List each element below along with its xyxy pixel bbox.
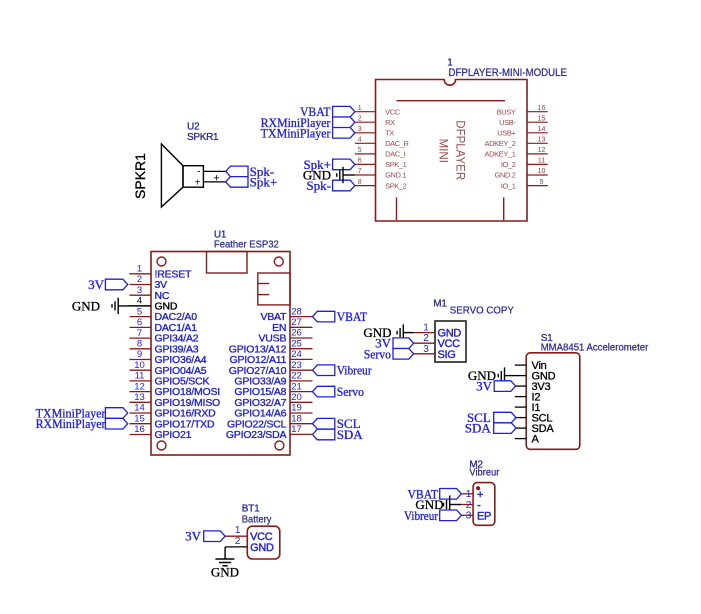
svg-text:14: 14	[538, 126, 546, 133]
DFPLAYER pin 14 USB+	[497, 126, 547, 138]
DFPLAYER pin 4 DAC_R	[355, 137, 410, 149]
DFPLAYER pin 16 BUSY	[497, 105, 548, 117]
svg-text:17: 17	[291, 424, 302, 435]
S1 pin SDA	[515, 423, 555, 435]
global label SDA at U1 pin 17	[313, 427, 364, 442]
svg-text:DFPLAYER: DFPLAYER	[454, 120, 466, 180]
wire speaker pin plus	[203, 181, 225, 183]
svg-text:RXMiniPlayer: RXMiniPlayer	[36, 416, 107, 431]
svg-text:-: -	[197, 167, 200, 178]
global label SDA at S1 SDA pin	[465, 421, 516, 436]
svg-text:5: 5	[137, 306, 142, 317]
U1 pin 23 GPIO27/A10	[229, 360, 313, 377]
DFPLAYER pin 13 ADKEY_2	[485, 137, 548, 149]
power symbol GND at U1 pin 4	[72, 298, 151, 314]
U1 pin 12 GPIO18/MOSI	[130, 381, 221, 398]
svg-text:3: 3	[358, 126, 362, 133]
svg-text:22: 22	[291, 371, 302, 382]
svg-text:3V: 3V	[476, 379, 493, 394]
power symbol GND at S1 GND pin	[468, 367, 515, 383]
svg-text:GND: GND	[211, 565, 239, 580]
global label Spk+ at DFPLAYER pin 6	[303, 157, 354, 172]
svg-text:3: 3	[423, 344, 429, 355]
svg-text:DAC_I: DAC_I	[385, 150, 405, 159]
U1 pin 4 GND	[128, 296, 178, 313]
power symbol GND below BT1	[211, 559, 239, 580]
U1 pin 15 GPIO17/TXD	[130, 413, 215, 430]
svg-text:1: 1	[137, 264, 142, 275]
svg-text:2: 2	[235, 536, 241, 547]
speaker U2 SPKR1 symbol	[161, 144, 203, 207]
global label SCL at U1 pin 18	[313, 416, 361, 431]
svg-text:SDA: SDA	[465, 421, 492, 436]
DFPLAYER pin 5 DAC_I	[355, 147, 406, 159]
DFPLAYER pin 7 GND.1	[355, 168, 406, 180]
svg-text:Vibreur: Vibreur	[337, 363, 372, 378]
svg-text:SPKR1: SPKR1	[187, 132, 219, 143]
M2 pin 1 +	[461, 488, 483, 501]
DFPLAYER pin 11 IO_2	[501, 158, 548, 170]
svg-text:26: 26	[291, 328, 302, 339]
svg-text:13: 13	[538, 137, 546, 144]
S1 pin I2	[515, 391, 541, 403]
battery BT1 body	[247, 526, 279, 559]
svg-text:SIG: SIG	[438, 349, 456, 361]
global label VBAT at M2 pin 1	[408, 486, 462, 501]
U1 pin 3 NC	[130, 285, 170, 302]
svg-text:11: 11	[135, 371, 145, 382]
global label SCL at S1 SCL pin	[467, 410, 516, 425]
S1 pin 3V3	[515, 381, 551, 393]
MCU U1 Feather ESP32 body	[151, 252, 290, 456]
DFPLAYER pin 1 VCC	[355, 105, 401, 117]
svg-text:Battery: Battery	[242, 513, 272, 525]
svg-text:Servo: Servo	[364, 346, 391, 361]
svg-text:9: 9	[540, 179, 544, 186]
svg-text:GND: GND	[250, 542, 274, 554]
svg-text:SPK_1: SPK_1	[385, 160, 407, 169]
svg-text:Feather ESP32: Feather ESP32	[214, 239, 279, 251]
U1 pin 24 GPIO12/A11	[230, 349, 313, 366]
svg-text:SERVO COPY: SERVO COPY	[450, 305, 514, 317]
svg-text:3V: 3V	[185, 529, 202, 544]
svg-text:M1: M1	[433, 299, 447, 310]
svg-text:SPKR1: SPKR1	[132, 153, 148, 199]
svg-text:TX: TX	[385, 129, 394, 138]
svg-text:3: 3	[137, 285, 142, 296]
svg-text:7: 7	[137, 328, 142, 339]
svg-text:USB-: USB-	[499, 118, 516, 127]
svg-text:Vibreur: Vibreur	[404, 508, 439, 523]
svg-text:1: 1	[358, 105, 362, 112]
U1 pin 14 GPIO16/RXD	[130, 403, 217, 420]
svg-text:2: 2	[423, 333, 429, 344]
svg-text:ADKEY_1: ADKEY_1	[485, 150, 516, 159]
svg-text:A: A	[532, 433, 540, 445]
svg-text:1: 1	[423, 323, 429, 334]
global label Servo at M1 pin 3	[364, 346, 414, 361]
global label 3V at M1 pin 2	[375, 336, 413, 351]
U1 pin 8 GPI39/A3	[130, 339, 199, 356]
svg-text:IO_1: IO_1	[501, 181, 516, 190]
svg-text:24: 24	[291, 349, 302, 360]
svg-text:4: 4	[137, 296, 142, 307]
svg-text:3V: 3V	[88, 277, 105, 292]
svg-text:U2: U2	[187, 122, 200, 133]
svg-text:VCC: VCC	[385, 107, 401, 116]
U1 pin 9 GPIO36/A4	[130, 349, 207, 366]
global label Vibreur at M2 pin 3	[404, 508, 461, 523]
U1 pin 28 VBAT	[260, 306, 312, 323]
BT1 pin 1 VCC	[225, 525, 273, 543]
U1 pin 5 DAC2/A0	[130, 306, 198, 323]
svg-text:IO_2: IO_2	[501, 160, 516, 169]
svg-text:3: 3	[466, 510, 472, 522]
global label 3V at BT1 pin 1	[185, 529, 225, 544]
global label Spk+ at speaker	[226, 174, 277, 189]
vibration motor M2 body	[473, 483, 495, 526]
svg-text:GPIO21: GPIO21	[155, 429, 192, 441]
svg-text:4: 4	[358, 137, 362, 144]
wire BT1 GND pin down	[224, 547, 226, 559]
global label RXMiniPlayer at DFPLAYER pin 2	[261, 115, 355, 130]
IC module DFPLAYER-MINI-MODULE body	[376, 80, 528, 222]
U1 pin 17 GPIO23/SDA	[226, 424, 313, 441]
svg-text:GND: GND	[303, 168, 331, 183]
U1 pin 11 GPIO5/SCK	[130, 371, 210, 388]
M1 pin 3 SIG	[414, 344, 456, 361]
svg-text:12: 12	[134, 381, 145, 392]
M1 pin 2 VCC	[414, 333, 461, 350]
svg-text:8: 8	[137, 339, 142, 350]
svg-text:8: 8	[358, 179, 362, 186]
global label 3V at S1 3V3 pin	[476, 379, 515, 394]
svg-text:10: 10	[538, 168, 546, 175]
U1 pin 1 !RESET	[130, 264, 193, 281]
svg-text:6: 6	[137, 317, 142, 328]
svg-text:GND: GND	[72, 298, 100, 313]
svg-text:VBAT: VBAT	[337, 309, 368, 324]
DFPLAYER pin 12 ADKEY_1	[485, 147, 548, 159]
svg-text:5: 5	[358, 147, 362, 154]
global label TXMiniPlayer at U1 pin 14	[36, 406, 128, 421]
U1 pin 2 3V	[130, 274, 168, 291]
svg-text:MMA8451 Accelerometer: MMA8451 Accelerometer	[541, 342, 649, 354]
svg-text:+: +	[195, 177, 201, 188]
global label 3V at U1 pin 2	[88, 277, 128, 292]
DFPLAYER pin 3 TX	[355, 126, 394, 138]
svg-text:Vibreur: Vibreur	[469, 467, 499, 479]
svg-text:SPK_2: SPK_2	[385, 181, 407, 190]
DFPLAYER pin 10 GND.2	[495, 168, 548, 180]
M2 pin 2 -	[461, 499, 481, 512]
M1 pin 1 GND	[414, 323, 462, 340]
power symbol GND at M1 pin 1	[363, 324, 413, 340]
svg-text:15: 15	[538, 115, 546, 122]
global label VBAT at U1 pin 28	[313, 309, 368, 324]
svg-text:6: 6	[358, 158, 362, 165]
svg-text:USB+: USB+	[497, 129, 516, 138]
accelerometer S1 body	[526, 353, 580, 450]
svg-text:Servo: Servo	[337, 384, 364, 399]
svg-text:GND.1: GND.1	[385, 171, 406, 180]
svg-text:DAC_R: DAC_R	[385, 139, 409, 148]
M2 pin 3 EP	[461, 510, 491, 523]
U1 pin 18 GPIO22/SCL	[227, 413, 312, 430]
svg-text:BUSY: BUSY	[497, 107, 516, 116]
svg-text:SDA: SDA	[337, 427, 364, 442]
svg-text:DFPLAYER-MINI-MODULE: DFPLAYER-MINI-MODULE	[449, 67, 567, 79]
U1 pin 25 GPIO13/A12	[229, 338, 313, 355]
global label Servo at U1 pin 21	[313, 384, 365, 399]
power symbol GND at M2 pin 2	[415, 496, 461, 514]
svg-text:EP: EP	[477, 510, 491, 522]
U1 pin 10 GPIO04/A5	[130, 360, 207, 377]
S1 pin I1	[515, 402, 541, 414]
BT1 pin 2 GND	[225, 536, 274, 554]
svg-text:14: 14	[134, 403, 145, 414]
global label VBAT at DFPLAYER pin 1	[300, 104, 355, 119]
svg-text:25: 25	[291, 338, 302, 349]
svg-text:GND.2: GND.2	[495, 171, 516, 180]
U1 pin 16 GPIO21	[130, 424, 192, 441]
svg-text:18: 18	[291, 413, 302, 424]
svg-text:GPIO23/SDA: GPIO23/SDA	[226, 429, 287, 441]
svg-text:20: 20	[291, 392, 302, 403]
svg-text:1: 1	[235, 525, 241, 536]
U1 pin 19 GPIO14/A6	[234, 403, 312, 420]
svg-text:9: 9	[137, 349, 142, 360]
global label Spk- at speaker	[226, 164, 274, 179]
DFPLAYER pin 9 IO_1	[501, 179, 548, 191]
svg-text:Spk+: Spk+	[250, 174, 278, 189]
svg-text:2: 2	[137, 274, 142, 285]
svg-text:ADKEY_2: ADKEY_2	[485, 139, 516, 148]
DFPLAYER pin 15 USB-	[499, 115, 548, 127]
global label Spk- at DFPLAYER pin 8	[306, 178, 354, 193]
DFPLAYER pin 2 RX	[355, 115, 395, 127]
svg-text:13: 13	[134, 392, 145, 403]
U1 pin 21 GPIO15/A8	[234, 381, 312, 398]
servo connector M1 body	[435, 321, 466, 362]
svg-text:23: 23	[291, 360, 302, 371]
S1 pin Vin	[515, 360, 547, 372]
svg-text:28: 28	[291, 306, 302, 317]
svg-text:7: 7	[358, 168, 362, 175]
svg-text:19: 19	[291, 403, 302, 414]
power symbol GND at DFPLAYER pin 7	[303, 167, 355, 183]
svg-text:27: 27	[291, 317, 302, 328]
svg-text:TXMiniPlayer: TXMiniPlayer	[261, 125, 332, 140]
S1 pin A	[515, 433, 540, 445]
svg-text:16: 16	[134, 424, 145, 435]
svg-text:11: 11	[538, 158, 545, 165]
S1 pin SCL	[515, 412, 553, 424]
U1 pin 27 EN	[272, 317, 312, 334]
svg-text:MINI: MINI	[436, 139, 448, 163]
U1 pin 6 DAC1/A1	[130, 317, 198, 334]
svg-text:RX: RX	[385, 118, 395, 127]
svg-text:15: 15	[134, 413, 145, 424]
U1 pin 22 GPIO33/A9	[234, 371, 312, 388]
U1 pin 20 GPIO32/A7	[234, 392, 312, 409]
svg-text:2: 2	[358, 115, 362, 122]
global label Vibreur at U1 pin 23	[313, 363, 373, 378]
svg-text:12: 12	[538, 147, 546, 154]
svg-text:16: 16	[538, 105, 546, 112]
svg-text:10: 10	[134, 360, 145, 371]
U1 pin 7 GPI34/A2	[130, 328, 199, 345]
DFPLAYER pin 6 SPK_1	[355, 158, 407, 170]
U1 pin 13 GPIO19/MISO	[130, 392, 221, 409]
DFPLAYER pin 8 SPK_2	[355, 179, 407, 191]
U1 pin 26 VUSB	[259, 328, 313, 345]
S1 pin GND	[515, 370, 556, 382]
global label TXMiniPlayer at DFPLAYER pin 3	[261, 125, 355, 140]
svg-text:21: 21	[291, 381, 302, 392]
wire speaker pin minus	[203, 170, 225, 172]
global label RXMiniPlayer at U1 pin 15	[36, 416, 128, 431]
